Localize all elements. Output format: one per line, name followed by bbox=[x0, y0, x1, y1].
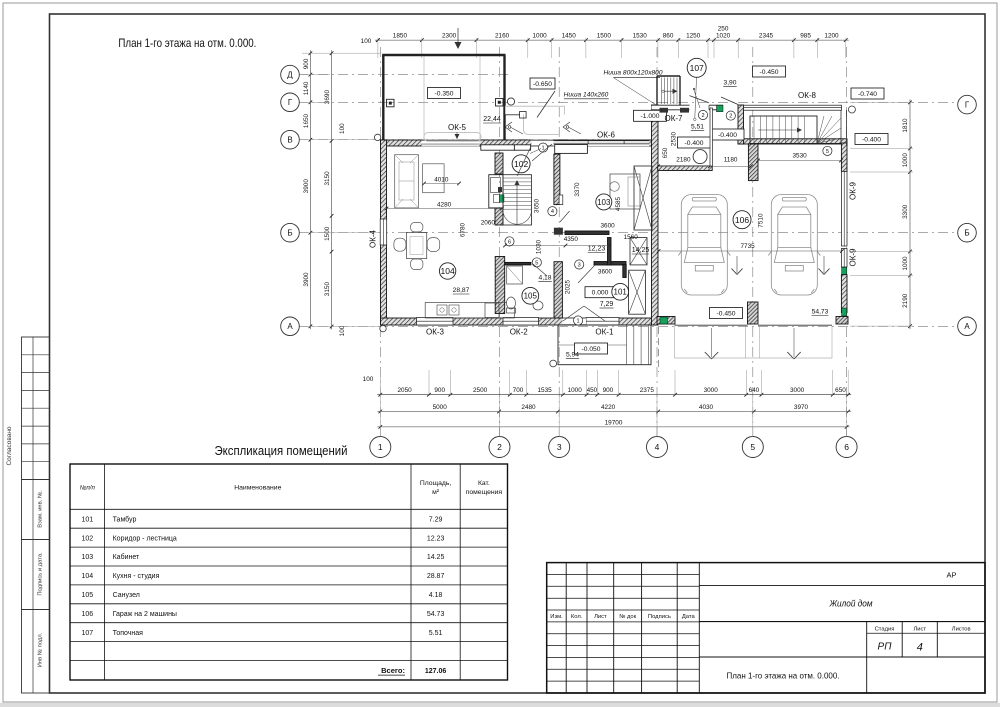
svg-text:5,51: 5,51 bbox=[691, 124, 704, 131]
svg-text:106: 106 bbox=[81, 611, 93, 618]
room 107 leader line bbox=[695, 78, 697, 119]
svg-text:127.06: 127.06 bbox=[425, 668, 447, 675]
svg-text:3000: 3000 bbox=[704, 387, 719, 394]
wardrobe X box in cabinet 103 bbox=[634, 166, 652, 230]
svg-text:Наименование: Наименование bbox=[234, 485, 281, 492]
svg-text:ОК-4: ОК-4 bbox=[369, 229, 378, 248]
topochnaya right wall bbox=[738, 105, 744, 144]
svg-text:ОК-5: ОК-5 bbox=[448, 123, 467, 132]
level box -0.400 right bbox=[855, 134, 888, 145]
svg-text:Всего:: Всего: bbox=[381, 666, 405, 675]
svg-text:1: 1 bbox=[577, 319, 580, 325]
svg-text:107: 107 bbox=[690, 63, 704, 73]
axis line 1 vertical bbox=[379, 47, 381, 437]
svg-text:104: 104 bbox=[441, 266, 455, 276]
corridor top wall horizontal bbox=[565, 231, 609, 235]
svg-text:2345: 2345 bbox=[759, 33, 774, 40]
corridor vertical wall right bbox=[608, 238, 612, 266]
tag circle 2 a bbox=[698, 110, 707, 119]
svg-text:-0.400: -0.400 bbox=[685, 140, 704, 147]
svg-text:План 1-го этажа на отм. 0.000.: План 1-го этажа на отм. 0.000. bbox=[118, 36, 256, 50]
wall above room 101 bbox=[594, 262, 626, 266]
axis line D horizontal bbox=[298, 74, 508, 76]
tag circle 2 b bbox=[726, 111, 735, 120]
svg-text:4350: 4350 bbox=[564, 236, 579, 243]
garage bottom left pier bbox=[657, 317, 675, 325]
corner drain circle terrace right bbox=[507, 98, 514, 105]
svg-text:3150: 3150 bbox=[324, 282, 331, 297]
svg-text:860: 860 bbox=[663, 33, 674, 40]
left margin cell Podpis i data bbox=[22, 540, 50, 610]
svg-text:107: 107 bbox=[81, 630, 93, 637]
fridge square bbox=[485, 303, 499, 318]
green vent square on G wall bbox=[717, 105, 724, 112]
OK-5 recess outline gray bbox=[424, 133, 481, 142]
svg-text:Гараж на 2 машины: Гараж на 2 машины bbox=[113, 611, 177, 618]
svg-text:-0.650: -0.650 bbox=[533, 81, 552, 88]
explication table header texts bbox=[80, 480, 503, 496]
tag leader lines 2 bbox=[694, 90, 700, 108]
svg-text:-0.400: -0.400 bbox=[862, 136, 881, 143]
svg-text:650: 650 bbox=[835, 387, 846, 394]
svg-text:650: 650 bbox=[662, 147, 669, 158]
svg-text:1500: 1500 bbox=[597, 33, 612, 40]
svg-text:101: 101 bbox=[81, 516, 93, 523]
axis line G horizontal bbox=[298, 101, 958, 103]
axis circle B right bbox=[958, 223, 977, 242]
svg-text:Коридор - лестница: Коридор - лестница bbox=[113, 535, 177, 542]
svg-text:Ниша 140х260: Ниша 140х260 bbox=[564, 91, 609, 98]
sofa in kitchen-studio bbox=[395, 155, 419, 208]
room circle 104 bbox=[439, 263, 455, 279]
driveway dashed edge left bbox=[658, 327, 660, 372]
G wall dark stub left bbox=[660, 108, 669, 113]
svg-text:1500: 1500 bbox=[324, 226, 331, 241]
entrance door opening in bottom wall bbox=[563, 318, 587, 326]
axis line V horizontal bbox=[298, 139, 600, 141]
tag circle 3 bbox=[575, 260, 584, 269]
terrace post right bbox=[496, 99, 504, 107]
svg-text:250: 250 bbox=[718, 26, 729, 33]
svg-text:1000: 1000 bbox=[902, 153, 909, 168]
wall piece below 101 top wall bbox=[623, 265, 626, 278]
window OK-9 lower bbox=[841, 249, 847, 268]
window OK-9 upper bbox=[841, 171, 847, 246]
svg-text:3900: 3900 bbox=[303, 179, 310, 194]
svg-text:2190: 2190 bbox=[902, 293, 909, 308]
svg-text:5000: 5000 bbox=[433, 404, 448, 411]
svg-text:12,23: 12,23 bbox=[588, 246, 606, 253]
window OK-4 left wall bbox=[380, 219, 387, 245]
svg-text:Площадь,: Площадь, bbox=[420, 480, 452, 487]
svg-text:3370: 3370 bbox=[574, 182, 581, 197]
svg-text:28.87: 28.87 bbox=[427, 573, 445, 580]
svg-text:4: 4 bbox=[551, 209, 554, 215]
axis line 4 vertical bbox=[656, 47, 658, 437]
svg-text:Санузел: Санузел bbox=[113, 592, 140, 599]
svg-text:РП: РП bbox=[878, 642, 893, 653]
svg-text:-0.350: -0.350 bbox=[435, 90, 454, 97]
svg-text:2025: 2025 bbox=[565, 279, 572, 294]
porch railing circles bbox=[550, 360, 557, 367]
svg-text:-0.400: -0.400 bbox=[718, 132, 737, 139]
level box -0.450 garage bbox=[710, 308, 743, 319]
green vent near stair cabinet bbox=[500, 195, 505, 202]
topochnaya bottom wall bbox=[658, 166, 713, 171]
door swing topochnaya outside bbox=[690, 96, 739, 105]
left margin approval table bbox=[22, 337, 50, 480]
title block texts bbox=[727, 571, 971, 681]
green vent right wall mid bbox=[842, 267, 847, 275]
garage down arrow right bbox=[819, 256, 830, 275]
svg-text:3900: 3900 bbox=[303, 272, 310, 287]
svg-text:1020: 1020 bbox=[716, 33, 731, 40]
svg-text:4: 4 bbox=[655, 442, 660, 452]
entrance stair corner post circle bbox=[848, 106, 855, 113]
svg-text:4585: 4585 bbox=[615, 196, 622, 211]
door swing corridor to 105 bbox=[533, 264, 547, 276]
svg-text:1810: 1810 bbox=[902, 118, 909, 133]
wall 102-103 bottom pier bbox=[554, 228, 563, 235]
tag circle 1 bottom bbox=[574, 316, 583, 325]
garage bottom green vent bbox=[660, 317, 668, 324]
tag circle 4 mid bbox=[548, 207, 557, 216]
explication table grid bbox=[70, 464, 508, 680]
svg-text:1000: 1000 bbox=[568, 387, 583, 394]
level box 0.000 room 101 bbox=[585, 287, 615, 298]
axis circle 3 bottom bbox=[549, 437, 570, 458]
svg-text:2: 2 bbox=[729, 114, 732, 120]
door swing 101 to corridor bbox=[578, 266, 595, 284]
svg-text:1200: 1200 bbox=[824, 33, 839, 40]
svg-text:2: 2 bbox=[701, 113, 704, 119]
svg-text:3: 3 bbox=[557, 442, 562, 452]
window OK-6 glazing band bbox=[554, 141, 650, 147]
svg-text:ОК-9: ОК-9 bbox=[849, 181, 858, 200]
flag symbol on terrace wall bbox=[505, 112, 526, 119]
axis line 6 vertical bbox=[846, 47, 848, 437]
right dimension chain bbox=[909, 99, 911, 329]
garage bottom middle pier bbox=[748, 302, 759, 324]
car right in garage bbox=[768, 195, 820, 296]
svg-text:2375: 2375 bbox=[640, 387, 655, 394]
svg-text:Жилой дом: Жилой дом bbox=[829, 599, 873, 610]
svg-text:7510: 7510 bbox=[758, 213, 765, 228]
svg-text:54.73: 54.73 bbox=[427, 611, 445, 618]
svg-text:Г: Г bbox=[288, 98, 293, 107]
topochnaya top wall along G thin bbox=[652, 105, 724, 110]
svg-text:100: 100 bbox=[363, 376, 374, 383]
terrace post left bbox=[387, 99, 395, 107]
door swing 102 entrance bbox=[517, 147, 531, 177]
svg-text:-0.450: -0.450 bbox=[717, 310, 736, 317]
bottom dimension chain level 3 total bbox=[377, 426, 849, 428]
basement stair walls bbox=[657, 76, 680, 105]
svg-text:54,73: 54,73 bbox=[812, 309, 829, 316]
svg-text:7,29: 7,29 bbox=[600, 301, 614, 308]
opening in top wall bbox=[531, 140, 553, 146]
svg-text:14,25: 14,25 bbox=[632, 247, 650, 254]
svg-text:3300: 3300 bbox=[902, 204, 909, 219]
svg-text:1: 1 bbox=[378, 442, 383, 452]
wall 102-103 bottom box bbox=[559, 195, 563, 205]
G wall dark stub right bbox=[680, 108, 689, 113]
svg-text:3970: 3970 bbox=[794, 404, 809, 411]
svg-text:А: А bbox=[287, 322, 293, 331]
svg-text:5: 5 bbox=[750, 442, 755, 452]
svg-text:4.18: 4.18 bbox=[429, 592, 443, 599]
garage door threshold lines bbox=[675, 324, 748, 326]
bathroom 105 right wall bbox=[554, 262, 562, 318]
sill box left below wall bbox=[481, 145, 515, 150]
top dimension chain level 1 bbox=[375, 39, 849, 41]
svg-text:103: 103 bbox=[81, 554, 93, 561]
svg-text:2530: 2530 bbox=[671, 131, 678, 146]
svg-text:АР: АР bbox=[946, 571, 956, 580]
svg-text:105: 105 bbox=[524, 292, 538, 301]
svg-text:101: 101 bbox=[614, 288, 628, 297]
tag circle 6 bbox=[505, 237, 514, 246]
svg-text:103: 103 bbox=[597, 198, 611, 207]
svg-text:5,94: 5,94 bbox=[566, 352, 579, 359]
svg-text:1000: 1000 bbox=[532, 33, 547, 40]
left margin cell Inv No podl bbox=[22, 610, 50, 694]
svg-text:900: 900 bbox=[434, 387, 445, 394]
corner drain circle top-left bbox=[374, 134, 380, 140]
svg-text:ОК-6: ОК-6 bbox=[597, 131, 616, 140]
svg-text:1450: 1450 bbox=[562, 33, 577, 40]
svg-text:ОК-8: ОК-8 bbox=[798, 91, 817, 100]
axis circle A left bbox=[281, 317, 300, 336]
svg-text:6780: 6780 bbox=[460, 222, 467, 237]
svg-text:-0.740: -0.740 bbox=[858, 91, 877, 98]
svg-text:450: 450 bbox=[587, 387, 598, 394]
axis line B horizontal bbox=[298, 232, 958, 234]
svg-text:помещения: помещения bbox=[466, 489, 503, 496]
svg-text:1850: 1850 bbox=[393, 33, 408, 40]
tag circle 5 mid bbox=[532, 258, 541, 267]
bottom extension lines bbox=[380, 370, 848, 437]
svg-text:3150: 3150 bbox=[324, 171, 331, 186]
tag circle 5 stair bbox=[823, 146, 832, 155]
svg-text:28,87: 28,87 bbox=[453, 287, 470, 294]
svg-text:Экспликация помещений: Экспликация помещений bbox=[215, 443, 348, 458]
svg-text:1250: 1250 bbox=[686, 33, 701, 40]
svg-text:100: 100 bbox=[339, 123, 346, 134]
svg-text:5: 5 bbox=[535, 260, 538, 266]
svg-text:2: 2 bbox=[497, 442, 502, 452]
bottom gray strip bbox=[0, 703, 1000, 707]
porch entrance door swing bbox=[563, 306, 605, 321]
level mark chevron left bbox=[505, 122, 523, 134]
svg-text:Подпись и дата.: Подпись и дата. bbox=[38, 552, 44, 596]
axis circle D left bbox=[281, 65, 300, 84]
axis line A horizontal bbox=[298, 325, 958, 327]
svg-text:Кол.: Кол. bbox=[571, 614, 583, 620]
level box -0.740 bbox=[851, 88, 884, 99]
svg-text:Дата: Дата bbox=[682, 614, 696, 620]
bottom dimension chain level 1 bbox=[377, 394, 851, 396]
window OK-2 bbox=[503, 318, 539, 326]
dining table with chairs bbox=[394, 222, 440, 269]
svg-text:Топочная: Топочная bbox=[113, 630, 144, 637]
svg-text:В: В bbox=[287, 136, 292, 145]
svg-text:Кабинет: Кабинет bbox=[113, 553, 140, 561]
room circle 101 bbox=[612, 283, 629, 300]
svg-text:Б: Б bbox=[287, 229, 292, 238]
svg-text:6: 6 bbox=[508, 239, 511, 245]
title block right part bbox=[699, 586, 985, 693]
garage down arrow left bbox=[732, 256, 743, 275]
left dimension chain inner bbox=[331, 50, 333, 329]
svg-text:4280: 4280 bbox=[437, 202, 452, 209]
svg-text:Кат.: Кат. bbox=[478, 480, 490, 487]
svg-text:2160: 2160 bbox=[495, 33, 510, 40]
top extension lines bbox=[378, 38, 846, 58]
room circle 106 bbox=[733, 211, 751, 229]
driveway bottom line bbox=[675, 357, 833, 359]
porch north window band OK-8 bbox=[744, 105, 842, 110]
toilet in bathroom bbox=[507, 297, 516, 313]
svg-text:900: 900 bbox=[603, 387, 614, 394]
svg-text:Ниша 800х120х800: Ниша 800х120х800 bbox=[604, 69, 663, 76]
svg-text:3530: 3530 bbox=[792, 153, 807, 160]
left extension lines bbox=[302, 53, 381, 326]
axis circle 5 bottom bbox=[742, 437, 763, 458]
desk in cabinet 103 bbox=[610, 174, 640, 209]
svg-text:-1.000: -1.000 bbox=[641, 113, 660, 120]
entrance stair arrow bbox=[758, 128, 802, 133]
svg-text:Листов: Листов bbox=[952, 627, 971, 633]
svg-text:Подпись: Подпись bbox=[648, 614, 671, 620]
door leaf at opening top wall bbox=[532, 144, 552, 161]
niche hidden lines gray bbox=[506, 106, 565, 134]
svg-text:Тамбур: Тамбур bbox=[113, 515, 137, 523]
terrace arrow down bbox=[455, 28, 462, 49]
svg-text:102: 102 bbox=[81, 535, 93, 542]
level mark chevron right bbox=[563, 122, 581, 134]
room circle 105 bbox=[522, 287, 539, 304]
sill box below OK-6 bbox=[555, 145, 588, 154]
axis line 2 vertical bbox=[499, 47, 501, 437]
pier below stairs in garage bbox=[748, 144, 758, 181]
room circle 102 bbox=[512, 155, 530, 173]
svg-text:2060: 2060 bbox=[481, 220, 496, 227]
level box -0.350 terrace bbox=[428, 88, 461, 99]
room circle 103 bbox=[596, 194, 612, 210]
axis circle 1 bottom bbox=[370, 437, 391, 458]
sill box right below wall bbox=[514, 145, 530, 150]
svg-text:700: 700 bbox=[513, 387, 524, 394]
entrance stair fan steps bbox=[750, 110, 847, 146]
right extension lines bbox=[850, 102, 913, 326]
svg-text:2480: 2480 bbox=[521, 404, 536, 411]
axis circle 4 bottom bbox=[647, 437, 668, 458]
axis circle V left bbox=[281, 130, 300, 149]
svg-text:1000: 1000 bbox=[902, 256, 909, 271]
axis circle 2 bottom bbox=[489, 437, 510, 458]
axis circle B left bbox=[281, 223, 300, 242]
garage top wall bbox=[738, 139, 847, 144]
svg-text:№п/п: №п/п bbox=[80, 485, 96, 492]
niche label 800x120x800 bbox=[604, 69, 663, 77]
svg-text:1140: 1140 bbox=[303, 81, 310, 95]
svg-text:ОК-3: ОК-3 bbox=[426, 328, 445, 337]
level box -0.050 porch bbox=[575, 343, 608, 354]
svg-text:100: 100 bbox=[361, 38, 372, 45]
svg-text:План 1-го этажа на отм. 0.000.: План 1-го этажа на отм. 0.000. bbox=[727, 671, 840, 681]
svg-text:7735: 7735 bbox=[740, 243, 755, 250]
svg-text:106: 106 bbox=[735, 215, 749, 225]
svg-text:6: 6 bbox=[844, 442, 849, 452]
svg-text:Взам. инв. №.: Взам. инв. №. bbox=[38, 490, 44, 528]
kitchen counter with sinks bbox=[425, 303, 514, 319]
svg-text:1560: 1560 bbox=[624, 234, 639, 241]
svg-text:12.23: 12.23 bbox=[427, 535, 445, 542]
door swing 103 bbox=[560, 211, 570, 222]
svg-text:3600: 3600 bbox=[598, 269, 613, 276]
entrance stair top-right platform bbox=[750, 116, 817, 144]
axis line 5 vertical bbox=[752, 47, 754, 437]
vent shaft X box in 101 bbox=[629, 270, 646, 314]
axis circle G right bbox=[958, 95, 977, 114]
svg-text:2050: 2050 bbox=[397, 387, 412, 394]
main house axis4 wall bbox=[652, 105, 659, 325]
boiler circle in topochnaya bbox=[693, 150, 707, 164]
left margin cell Vzam inv bbox=[22, 480, 50, 540]
terrace walls top-left bbox=[382, 55, 505, 140]
svg-text:5: 5 bbox=[826, 149, 829, 155]
title block header row texts bbox=[550, 614, 695, 620]
explication table rows bbox=[81, 515, 446, 675]
garage right bottom pier bbox=[836, 317, 848, 325]
svg-text:3: 3 bbox=[578, 263, 581, 269]
svg-text:3000: 3000 bbox=[790, 387, 805, 394]
main house left exterior wall bbox=[381, 140, 387, 325]
shower in bathroom bbox=[507, 266, 523, 284]
svg-text:Инв № подл.: Инв № подл. bbox=[38, 632, 44, 667]
niche label 140x260 bbox=[564, 91, 609, 99]
svg-text:4220: 4220 bbox=[601, 404, 616, 411]
svg-text:Д: Д bbox=[287, 71, 293, 80]
left dimension chain outer bbox=[309, 50, 311, 329]
svg-text:1530: 1530 bbox=[633, 33, 648, 40]
svg-text:Г: Г bbox=[965, 101, 970, 110]
title block frame bbox=[547, 563, 985, 693]
svg-text:ОК-9: ОК-9 bbox=[849, 248, 858, 267]
level box -0.400 middle bbox=[711, 129, 744, 140]
svg-text:4030: 4030 bbox=[699, 404, 714, 411]
svg-text:2300: 2300 bbox=[442, 33, 457, 40]
car left in garage bbox=[678, 195, 730, 296]
washbasin in bathroom bbox=[533, 301, 543, 310]
axis circle G left bbox=[281, 93, 300, 112]
garage right wall upper bbox=[841, 143, 847, 171]
garage right wall lower bbox=[841, 275, 847, 313]
svg-text:1535: 1535 bbox=[537, 387, 552, 394]
svg-text:19700: 19700 bbox=[605, 419, 623, 426]
leader line from -0.650 box bbox=[537, 91, 555, 118]
window OK-1 bbox=[586, 318, 619, 326]
main house bottom exterior wall bbox=[381, 318, 658, 325]
svg-text:1650: 1650 bbox=[303, 113, 310, 128]
svg-text:900: 900 bbox=[303, 58, 310, 69]
svg-text:4: 4 bbox=[917, 642, 923, 654]
bottom dimension chain level 2 bbox=[377, 411, 851, 413]
level box -0.400 topochnaya bbox=[678, 137, 711, 148]
svg-text:-0.450: -0.450 bbox=[760, 69, 779, 76]
svg-text:3650: 3650 bbox=[534, 198, 541, 213]
